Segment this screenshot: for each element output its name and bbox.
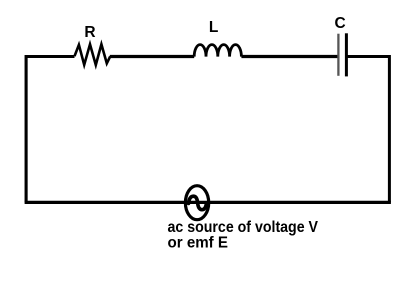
- ac source U1 circle: [185, 186, 208, 220]
- svg-text:or emf E: or emf E: [168, 235, 229, 252]
- svg-text:C: C: [335, 15, 346, 32]
- wire: inductor to capacitor: [241, 55, 338, 58]
- wire: bottom: [25, 201, 391, 204]
- svg-text:R: R: [84, 24, 95, 41]
- inductor L: [194, 45, 241, 57]
- ac source sine wave: [189, 196, 207, 210]
- capacitor C right plate: [345, 33, 348, 76]
- svg-text:ac source of voltage V: ac source of voltage V: [168, 219, 319, 236]
- wire: left vertical with top-left corner segment: [26, 57, 74, 203]
- wire: resistor to inductor: [110, 55, 194, 58]
- svg-text:L: L: [209, 19, 218, 36]
- capacitor C left plate: [337, 34, 339, 76]
- resistor R: [75, 44, 111, 65]
- wire: capacitor to top-right corner and right vertical: [346, 57, 389, 203]
